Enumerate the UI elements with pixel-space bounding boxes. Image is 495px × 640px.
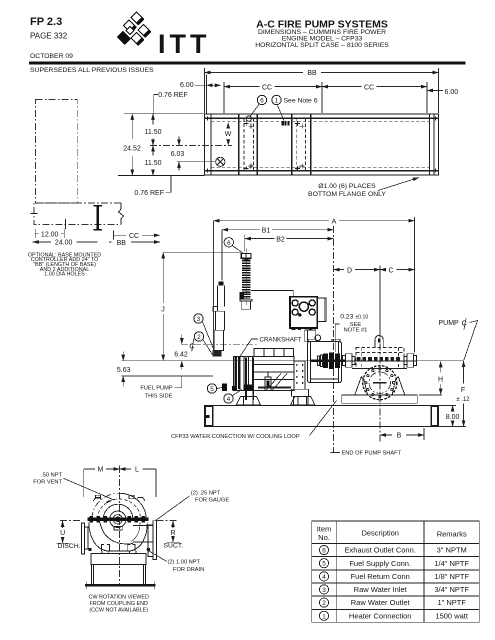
- callout circle 6 elevation: [224, 238, 233, 247]
- svg-text:0.23 ±0.10: 0.23 ±0.10: [340, 313, 368, 320]
- svg-text:Ø1.00 (6) PLACES: Ø1.00 (6) PLACES: [318, 183, 376, 190]
- svg-text:2: 2: [197, 334, 201, 341]
- stack centerline: [245, 249, 247, 306]
- dim 11.50 lower: [152, 146, 154, 156]
- exhaust flex bellows: [242, 260, 251, 300]
- casing flange bolt row: [357, 357, 400, 360]
- base plan left end cap: [210, 114, 212, 175]
- svg-text:3: 3: [322, 587, 326, 594]
- valve cover group: [254, 349, 294, 357]
- dim 24.00 with BB arrow: [33, 241, 51, 243]
- svg-text:5: 5: [322, 561, 326, 568]
- controller bottom tick: [65, 219, 67, 229]
- exhaust bottom flange: [240, 299, 252, 301]
- svg-text:DISCH.: DISCH.: [57, 543, 80, 550]
- dim CC arrow to elevation: [112, 231, 114, 240]
- pump vent pipe: [374, 340, 376, 348]
- svg-text:OCTOBER 09: OCTOBER 09: [30, 53, 73, 60]
- svg-text:THIS SIDE: THIS SIDE: [145, 394, 173, 400]
- volute curve: [100, 522, 133, 544]
- ext line pump centerline upper: [379, 266, 381, 334]
- controller left tick: [31, 213, 38, 215]
- dim M: [84, 468, 95, 470]
- heater connection black blob item 1: [282, 121, 290, 126]
- svg-text:B1: B1: [262, 227, 271, 234]
- pump vertical centerline: [379, 331, 381, 444]
- base elevation left black mark: [206, 415, 210, 418]
- base plan hidden edge top: [211, 121, 430, 123]
- svg-text:END OF PUMP SHAFT: END OF PUMP SHAFT: [342, 451, 402, 457]
- base plan crossmember 2: [291, 114, 293, 175]
- end of pump shaft dash-dot line: [333, 226, 335, 452]
- casing top arc: [92, 493, 119, 519]
- svg-text:D: D: [347, 267, 352, 274]
- dim B1: [222, 229, 260, 231]
- svg-text:1: 1: [275, 98, 279, 105]
- svg-text:CW ROTATION VIEWED: CW ROTATION VIEWED: [89, 594, 149, 600]
- engine gear case dark bars: [245, 358, 247, 401]
- callout circle 1 top: [272, 95, 281, 104]
- svg-text:(2) .25 NPT: (2) .25 NPT: [191, 491, 221, 497]
- pump horizontal centerline end view: [60, 520, 82, 522]
- svg-text:12.00: 12.00: [41, 231, 59, 238]
- svg-text:PAGE 332: PAGE 332: [30, 32, 68, 41]
- svg-text:1.00 DIA HOLES: 1.00 DIA HOLES: [44, 272, 85, 278]
- dim 6.03: [178, 136, 180, 145]
- svg-text:FOR GAUGE: FOR GAUGE: [195, 498, 229, 504]
- table row 3: [319, 585, 469, 594]
- base elevation left end cap: [205, 406, 212, 425]
- suction pipe lines: [133, 525, 153, 527]
- svg-text:.50 NPT: .50 NPT: [41, 473, 62, 479]
- svg-text:B2: B2: [276, 236, 285, 243]
- svg-text:A: A: [332, 218, 337, 225]
- callout circle 3: [194, 314, 203, 323]
- svg-text:BB: BB: [117, 240, 127, 247]
- dim W: [227, 123, 229, 128]
- engine foot left: [236, 397, 260, 405]
- base plan outer rectangle: [205, 114, 439, 175]
- base plan crossmember 1: [238, 114, 240, 175]
- dim B2: [245, 238, 275, 240]
- svg-text:6.00: 6.00: [180, 82, 194, 89]
- svg-text:FUEL PUMP: FUEL PUMP: [140, 386, 173, 392]
- svg-text:Heater Connection: Heater Connection: [349, 611, 412, 620]
- svg-text:Exhaust Outlet Conn.: Exhaust Outlet Conn.: [345, 546, 416, 555]
- svg-text:0.76 REF: 0.76 REF: [158, 92, 188, 99]
- pump suction flange circle: [363, 366, 397, 400]
- stuffing box nut: [114, 526, 122, 530]
- pump upper casing hidden lines: [356, 348, 404, 369]
- dim 8.00: [452, 406, 454, 410]
- pump vertical centerline end view: [119, 466, 121, 587]
- oil pan band: [258, 387, 291, 389]
- exhaust collar: [240, 292, 244, 300]
- soleplate reference line: [419, 394, 442, 396]
- table row 6: [319, 545, 466, 554]
- pump foot left: [355, 377, 368, 395]
- dim H: [440, 361, 442, 372]
- svg-text:3" NPTM: 3" NPTM: [437, 546, 467, 555]
- dim U: [62, 521, 64, 528]
- table row lines: [312, 544, 480, 610]
- svg-text:5: 5: [210, 386, 214, 393]
- table row 1: [319, 611, 468, 620]
- dim C: [380, 269, 386, 271]
- base plan centerline: [150, 145, 232, 147]
- svg-text:6: 6: [260, 98, 264, 105]
- support legs to pedestal: [101, 551, 103, 553]
- base bottom edge extension right: [439, 426, 467, 428]
- svg-text:11.50: 11.50: [145, 160, 162, 167]
- svg-text:CC: CC: [262, 84, 272, 91]
- svg-text:3: 3: [197, 316, 201, 323]
- svg-text:Description: Description: [361, 529, 399, 538]
- base top edge extension right: [439, 405, 457, 407]
- casing feet: [101, 545, 109, 552]
- dim 24.52: [124, 113, 205, 115]
- base plan top flange line: [205, 117, 439, 119]
- dim M L extension lines: [83, 469, 85, 497]
- svg-text:M: M: [97, 467, 103, 474]
- table outer frame: [312, 521, 480, 622]
- svg-text:BOTTOM FLANGE ONLY: BOTTOM FLANGE ONLY: [308, 191, 386, 198]
- pump shaft: [310, 360, 417, 362]
- flywheel housing: [307, 342, 341, 383]
- svg-text:6.00: 6.00: [445, 89, 459, 96]
- dim L: [120, 468, 132, 470]
- svg-text:B: B: [397, 433, 402, 440]
- dim F: [463, 361, 465, 384]
- svg-text:1500 watt: 1500 watt: [435, 611, 468, 620]
- svg-text:See Note 6: See Note 6: [284, 98, 318, 105]
- casing lower outline: [89, 522, 147, 550]
- table row 4: [319, 572, 469, 581]
- shaft circles: [110, 511, 126, 527]
- crankshaft centerline: [121, 360, 463, 362]
- svg-text:PUMP: PUMP: [439, 320, 460, 327]
- gauge boss lugs on dome: [93, 498, 100, 501]
- callout circle 6 top: [257, 95, 266, 104]
- dim 12.00: [34, 229, 36, 238]
- base elevation right end cap: [431, 406, 437, 425]
- svg-text:Remarks: Remarks: [437, 530, 467, 539]
- coupling hubs: [318, 356, 320, 366]
- leader from callout 1: [278, 105, 285, 120]
- left bearing housing: [343, 356, 346, 366]
- hole marks plus signs: [206, 117, 438, 173]
- svg-text:W: W: [225, 131, 232, 138]
- svg-text:6.42: 6.42: [174, 352, 188, 359]
- engine block: [234, 357, 295, 391]
- svg-text:SUCT.: SUCT.: [164, 543, 184, 550]
- air cleaner housing: [290, 297, 317, 328]
- svg-text:FROM COUPLING END: FROM COUPLING END: [89, 601, 148, 607]
- callout circle 2: [194, 332, 203, 341]
- dim A: [213, 220, 329, 222]
- engine top outline: [251, 290, 293, 296]
- svg-text:ITT: ITT: [158, 29, 211, 59]
- base legs end view: [90, 565, 92, 584]
- svg-text:8.00: 8.00: [446, 414, 460, 421]
- svg-text:Raw Water Inlet: Raw Water Inlet: [354, 585, 408, 594]
- exhaust stack cap item 6: [241, 254, 251, 259]
- svg-text:(2) 1.00 NPT: (2) 1.00 NPT: [168, 560, 201, 566]
- svg-text:FOR DRAIN: FOR DRAIN: [173, 567, 204, 573]
- svg-text:HORIZONTAL SPLIT CASE – 8100 S: HORIZONTAL SPLIT CASE – 8100 SERIES: [255, 42, 389, 49]
- table column line 2: [423, 521, 425, 622]
- header thick rule: [29, 62, 466, 65]
- ext line exhaust: [244, 235, 246, 252]
- svg-text:SUPERSEDES ALL PREVIOUS ISSUES: SUPERSEDES ALL PREVIOUS ISSUES: [30, 67, 154, 74]
- svg-text:U: U: [60, 530, 65, 537]
- dim B: [380, 434, 392, 436]
- dim D: [334, 269, 345, 271]
- svg-text:(CCW NOT AVAILABLE): (CCW NOT AVAILABLE): [89, 607, 148, 613]
- svg-text:4: 4: [227, 396, 231, 403]
- dim J: [163, 251, 241, 253]
- table row 5: [319, 559, 469, 568]
- controller elevation dash-dot rectangle: [34, 203, 121, 225]
- svg-text:6: 6: [322, 548, 326, 555]
- dim 6.00 right: [427, 90, 439, 92]
- svg-text:2: 2: [322, 600, 326, 607]
- svg-text:Fuel Supply Conn.: Fuel Supply Conn.: [349, 559, 411, 568]
- svg-text:1/8" NPTF: 1/8" NPTF: [434, 572, 469, 581]
- fuel pump centerline: [181, 343, 257, 345]
- table column line 1: [335, 521, 337, 622]
- end of pump shaft note: [331, 452, 341, 454]
- svg-text:CFP33 WATER CONECTION W/ COOLI: CFP33 WATER CONECTION W/ COOLING LOOP: [171, 434, 300, 440]
- svg-text:Raw Water Outlet: Raw Water Outlet: [351, 598, 411, 607]
- base plan hidden edge bottom: [211, 166, 430, 168]
- svg-text:C: C: [388, 267, 393, 274]
- callout circle 4: [224, 394, 233, 403]
- ext line shaft end right: [414, 217, 416, 353]
- dim 6.42: [181, 335, 183, 345]
- fuel pump lower reference line: [121, 375, 213, 377]
- svg-text:6.03: 6.03: [171, 151, 185, 158]
- svg-text:11.50: 11.50: [145, 129, 162, 136]
- base bottom flange: [85, 584, 155, 587]
- base plan right end cap: [429, 114, 431, 175]
- soleplate: [342, 395, 418, 403]
- dim R: [172, 521, 174, 528]
- dim 5.63: [122, 351, 124, 361]
- inner volute circle: [103, 504, 133, 519]
- svg-text:NOTE #1: NOTE #1: [344, 327, 368, 333]
- svg-text:F: F: [461, 387, 465, 394]
- discharge flange left: [82, 523, 85, 554]
- dim 11.50 upper: [152, 114, 154, 125]
- pump pedestal plate: [91, 553, 146, 564]
- base elevation outer: [205, 406, 439, 427]
- air box pedestal: [305, 330, 316, 342]
- engine foot right: [291, 397, 315, 405]
- svg-text:24.52: 24.52: [123, 145, 141, 152]
- controller plan dash-dot rectangle: [36, 100, 78, 204]
- svg-text:1: 1: [322, 613, 326, 620]
- fuel pump item 5 black body: [222, 384, 227, 391]
- vent bosses on top: [96, 495, 101, 499]
- svg-text:Fuel Return Conn: Fuel Return Conn: [351, 572, 410, 581]
- heavy reference tick: [96, 206, 98, 231]
- svg-text:BB: BB: [307, 70, 317, 77]
- base plan bottom flange line: [205, 170, 439, 172]
- ITT logo cubes: [118, 12, 151, 45]
- svg-text:H: H: [438, 376, 443, 383]
- casing hidden volute arcs: [98, 499, 141, 519]
- svg-text:CC: CC: [129, 233, 139, 240]
- svg-text:6: 6: [227, 240, 231, 247]
- svg-text:CRANKSHAFT: CRANKSHAFT: [260, 336, 302, 343]
- bearing bracket between engine and pump: [294, 361, 305, 389]
- split case flange bar: [88, 517, 149, 521]
- svg-text:1" NPTF: 1" NPTF: [437, 598, 466, 607]
- svg-text:FP 2.3: FP 2.3: [30, 16, 62, 28]
- dim CC left segment: [223, 82, 225, 113]
- svg-text:CC: CC: [364, 84, 374, 91]
- controller break line: [119, 203, 124, 225]
- svg-text:No.: No.: [318, 533, 330, 542]
- table row 2: [319, 598, 466, 607]
- svg-text:J: J: [161, 306, 165, 313]
- svg-text:± .12: ± .12: [456, 397, 470, 403]
- svg-text:3/4" NPTF: 3/4" NPTF: [434, 585, 469, 594]
- svg-text:24.00: 24.00: [55, 240, 73, 247]
- right bearing housing: [404, 357, 407, 365]
- svg-text:5.63: 5.63: [117, 367, 131, 374]
- callout circle 5: [207, 384, 216, 393]
- injector cluster: [265, 377, 271, 391]
- svg-text:4: 4: [322, 574, 326, 581]
- fuel line standpipe: [218, 282, 223, 286]
- svg-text:1/4" NPTF: 1/4" NPTF: [434, 559, 469, 568]
- svg-text:L: L: [135, 467, 139, 474]
- pump foot right: [392, 377, 405, 395]
- suction flange right: [153, 521, 157, 560]
- dim BB top view: [204, 68, 206, 113]
- leader from callout 6: [250, 104, 259, 116]
- svg-text:0.76 REF: 0.76 REF: [134, 190, 164, 197]
- drain hole circle-cross symbol: [216, 157, 225, 166]
- svg-text:FOR VENT: FOR VENT: [33, 480, 62, 486]
- exhaust outlet pipe: [241, 301, 250, 309]
- dim CC right segment: [322, 86, 362, 88]
- svg-text:R: R: [170, 530, 175, 537]
